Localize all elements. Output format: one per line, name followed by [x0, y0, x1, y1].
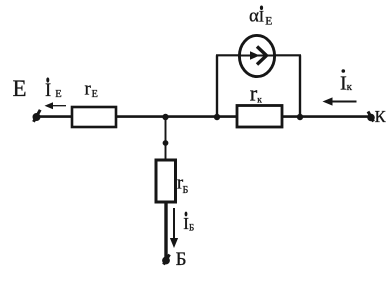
- svg-text:E: E: [55, 89, 61, 100]
- svg-text:Е: Е: [265, 16, 272, 28]
- svg-text:E: E: [13, 76, 27, 101]
- svg-text:I: I: [45, 81, 51, 101]
- svg-text:α: α: [249, 6, 259, 27]
- svg-text:к: к: [257, 95, 262, 105]
- svg-text:Б: Б: [176, 249, 187, 270]
- svg-text:к: к: [347, 81, 353, 93]
- svg-text:I: I: [259, 9, 264, 26]
- svg-text:Б: Б: [189, 223, 194, 233]
- svg-text:E: E: [92, 89, 98, 100]
- svg-text:r: r: [85, 79, 92, 100]
- svg-text:К: К: [375, 107, 387, 126]
- svg-text:Б: Б: [183, 185, 189, 196]
